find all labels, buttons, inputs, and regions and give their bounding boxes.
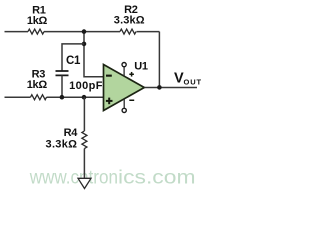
wire: bottom net (R3 line)	[5, 96, 104, 98]
power pin: positive supply circle and stem	[123, 67, 125, 77]
node: junction cap branch at (84,43.9)	[82, 42, 87, 47]
svg-text:C1: C1	[66, 55, 81, 67]
svg-text:100pF: 100pF	[69, 80, 103, 92]
resistor R4	[82, 131, 87, 149]
pin: non-inverting input plus sign	[106, 100, 113, 102]
wire: output	[144, 87, 197, 89]
svg-text:U1: U1	[134, 61, 148, 73]
svg-text:3.3kΩ: 3.3kΩ	[114, 15, 145, 27]
power pin: negative supply circle and stem	[123, 99, 125, 109]
svg-text:1kΩ: 1kΩ	[27, 15, 48, 27]
node: junction on top net at x=84	[82, 29, 87, 34]
label + (positive supply)	[129, 74, 134, 76]
resistor R1	[28, 29, 44, 34]
svg-text:www.cntron: www.cntron	[29, 167, 118, 189]
wire: capacitor branch	[62, 44, 84, 71]
svg-text:OUT: OUT	[184, 78, 203, 87]
op-amp U1	[104, 65, 145, 111]
wire: inverting node vertical x=84	[84, 32, 104, 77]
wire: cap bottom to R3 net	[61, 75, 63, 97]
label − (negative supply)	[129, 100, 134, 102]
wire: top net from left edge through R1 position to feedback corner	[5, 31, 160, 33]
svg-text:V: V	[174, 70, 184, 86]
wire: R4 branch vertical	[83, 97, 85, 178]
svg-text:1kΩ: 1kΩ	[27, 79, 48, 91]
node: cap to R3 junction	[60, 95, 65, 100]
svg-text:3.3kΩ: 3.3kΩ	[46, 139, 78, 151]
node: output/feedback junction	[157, 85, 162, 90]
svg-text:R4: R4	[64, 127, 79, 139]
pin: inverting input minus sign	[106, 75, 112, 77]
wire: feedback vertical from top net down to output	[158, 32, 160, 88]
resistor R2	[120, 29, 136, 34]
ground	[78, 178, 91, 188]
resistor R3	[31, 95, 47, 100]
capacitor C1	[56, 71, 69, 75]
node: R4 to R3 junction	[82, 95, 87, 100]
svg-text:ics.com: ics.com	[118, 167, 196, 189]
